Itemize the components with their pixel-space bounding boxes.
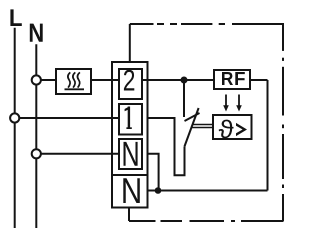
thermostat theta symbol [219, 120, 234, 139]
terminal N1 box [119, 139, 142, 169]
node N label [30, 24, 43, 42]
enclosure boundary top (dash-dot) [130, 23, 283, 25]
junction dot A [181, 77, 188, 84]
node L label [10, 9, 21, 26]
terminal circle on N (heater feed) [32, 75, 41, 84]
wire terminal 2 to RF [142, 79, 214, 81]
switch S1 fixed contact [183, 80, 185, 117]
terminal N2 label [123, 178, 140, 203]
wire L line vertical [14, 28, 16, 228]
terminal 1 box [119, 104, 142, 135]
wire L to terminal 1 [20, 117, 120, 119]
terminal 2 box [119, 69, 142, 99]
wire right riser down [267, 80, 269, 191]
wire N to heater [41, 79, 56, 81]
heater E1 (heating element) [56, 69, 91, 94]
switch S1 blade [185, 108, 199, 146]
enclosure boundary right (dash-dot) [282, 23, 284, 221]
terminal N2 divider [112, 174, 148, 176]
thermostat box B1 [213, 115, 252, 139]
enclosure boundary bottom (dash-dot) [129, 220, 284, 222]
wire RF to right riser [250, 79, 268, 81]
wire N line vertical [35, 44, 37, 228]
RF control arrow 2 [236, 95, 242, 112]
RF label [222, 72, 233, 85]
wire terminal 1 to switch [148, 118, 185, 175]
thermostat greater-than [236, 123, 247, 136]
terminal N1 label [124, 142, 138, 166]
terminal 2 label [124, 70, 134, 91]
terminal block X1 outer [112, 62, 148, 208]
RF control arrow 1 [223, 95, 229, 112]
wire heater to terminal 2 [91, 79, 119, 81]
RF box U1 [214, 70, 250, 89]
enclosure boundary left entry [129, 24, 131, 62]
wire bottom return to N [147, 190, 268, 192]
enclosure boundary bottom step [128, 208, 130, 222]
terminal 1 label [125, 107, 132, 130]
terminal circle on L [10, 113, 19, 122]
switch S1 seat slash [185, 113, 200, 121]
wire N to terminal N1 [41, 153, 119, 155]
mechanical link to thermostat [193, 124, 214, 126]
junction dot B [155, 187, 162, 194]
terminal circle on N (lower) [32, 149, 41, 158]
wire terminal N1 to junction B [148, 154, 159, 191]
